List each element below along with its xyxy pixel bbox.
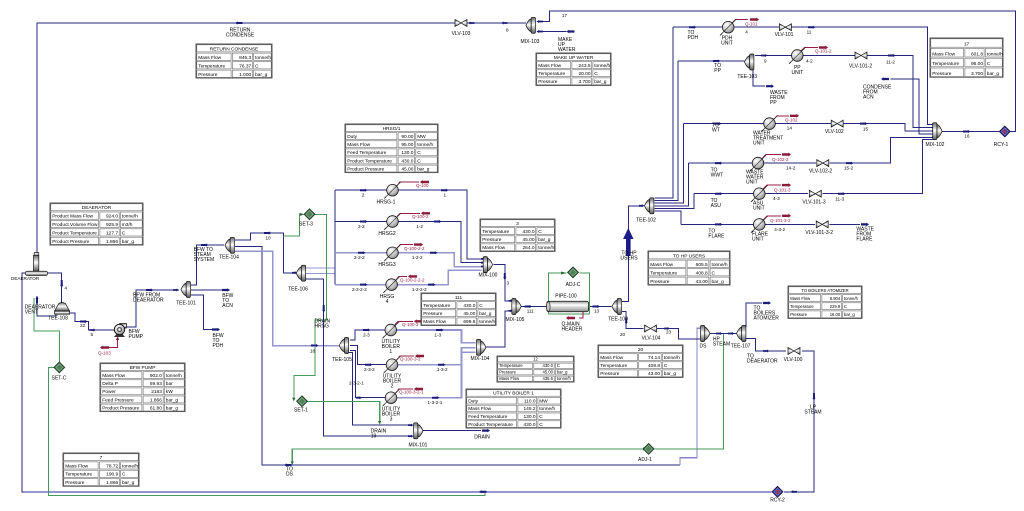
svg-text:Product Pressure: Product Pressure	[347, 166, 384, 172]
svg-text:VLV-101: VLV-101	[775, 32, 794, 38]
svg-text:Q-102-2: Q-102-2	[772, 157, 789, 162]
svg-text:Q-100-3: Q-100-3	[402, 322, 419, 327]
svg-text:C: C	[122, 472, 126, 478]
svg-text:bar_g: bar_g	[557, 369, 568, 374]
set SET-3	[304, 209, 315, 220]
svg-text:20.00: 20.00	[578, 71, 590, 77]
svg-text:1.000: 1.000	[239, 72, 251, 78]
svg-text:TEE-105: TEE-105	[332, 357, 352, 363]
valve VLV-100	[788, 348, 800, 355]
svg-text:Pressure: Pressure	[198, 72, 218, 78]
svg-text:Q-100-2-2: Q-100-2-2	[404, 246, 425, 251]
svg-text:Q-101-3-2: Q-101-3-2	[770, 218, 791, 223]
big arrow TO HP USERS	[623, 228, 633, 256]
svg-text:1-3-2: 1-3-2	[437, 367, 448, 372]
wire TEE-103 to PP unit row	[755, 55, 792, 57]
tee TEE-101	[181, 282, 190, 298]
svg-text:HRSG3: HRSG3	[378, 262, 395, 268]
svg-text:RETURN CONDENSE: RETURN CONDENSE	[210, 46, 259, 52]
heater HRSG2	[384, 213, 401, 230]
svg-text:1.866: 1.866	[106, 239, 118, 245]
heater FLARE UNIT	[751, 216, 768, 233]
valve VLV-101-3	[809, 190, 821, 197]
svg-text:924.0: 924.0	[106, 214, 118, 220]
svg-text:tonne/h: tonne/h	[417, 142, 433, 148]
svg-text:Feed Pressure: Feed Pressure	[102, 397, 134, 403]
wire TEE-100 riser to TEE-102 with TO HP USERS arrow	[622, 206, 640, 302]
svg-text:C: C	[594, 71, 598, 77]
svg-text:229.9: 229.9	[830, 304, 841, 309]
wire LP steam from VLV-100 to RCY-2	[784, 351, 814, 492]
wire stream 22 / 5 to pump	[68, 313, 114, 330]
green ADJ-C loop around PIPE-100	[549, 273, 567, 307]
svg-text:HRSG2: HRSG2	[378, 231, 395, 237]
svg-text:3: 3	[507, 281, 510, 286]
wire DS outlet HP STEAM to TEE-107	[710, 333, 737, 335]
wire deaerator outlet stream 4	[48, 273, 62, 303]
svg-text:430.0: 430.0	[463, 303, 475, 309]
svg-text:tonne/h: tonne/h	[479, 319, 495, 325]
svg-text:HRSG/1: HRSG/1	[383, 126, 401, 132]
svg-text:Mass Flow: Mass Flow	[347, 142, 370, 148]
svg-text:STEAM: STEAM	[713, 342, 730, 348]
svg-text:UNIT: UNIT	[752, 237, 764, 243]
svg-text:MIX-102: MIX-102	[926, 142, 945, 148]
svg-text:2-2: 2-2	[358, 224, 365, 229]
valve VLV-103	[455, 20, 467, 27]
svg-text:HEADER: HEADER	[562, 327, 583, 333]
wire utility boiler returns to MIX-104	[397, 330, 476, 343]
svg-text:PUMP: PUMP	[129, 334, 144, 340]
svg-text:96.00: 96.00	[971, 61, 983, 67]
svg-text:TEE-107: TEE-107	[731, 344, 751, 350]
svg-text:15: 15	[863, 127, 869, 132]
svg-text:Feed Temperature: Feed Temperature	[468, 414, 507, 420]
svg-text:VLV-101-3: VLV-101-3	[802, 200, 825, 206]
svg-text:4: 4	[745, 30, 748, 35]
svg-text:Mass Flow: Mass Flow	[499, 376, 520, 381]
svg-text:TEE-102: TEE-102	[636, 218, 656, 224]
svg-text:MIX-100: MIX-100	[479, 273, 498, 279]
svg-text:Mass Flow: Mass Flow	[600, 355, 623, 361]
svg-text:MIX-105: MIX-105	[506, 317, 525, 323]
table 7	[63, 453, 139, 486]
svg-text:bar_g: bar_g	[166, 405, 179, 411]
svg-text:UNIT: UNIT	[721, 41, 733, 47]
svg-text:PIPE-100: PIPE-100	[555, 294, 577, 300]
svg-text:127.7: 127.7	[106, 230, 118, 236]
wire branch row 1 TO PDH	[673, 27, 933, 124]
svg-text:m3/h: m3/h	[122, 222, 133, 228]
svg-text:Mass Flow: Mass Flow	[650, 262, 673, 268]
svg-text:16: 16	[964, 134, 970, 139]
svg-text:ASU: ASU	[711, 203, 722, 209]
svg-text:WWT: WWT	[711, 173, 724, 179]
svg-text:SET-C: SET-C	[52, 376, 67, 382]
svg-text:tonne/h: tonne/h	[122, 463, 138, 469]
recycle RCY-1	[999, 126, 1010, 137]
heater PDH UNIT	[720, 19, 737, 36]
svg-text:4-3: 4-3	[773, 196, 780, 201]
svg-text:243.5: 243.5	[578, 63, 590, 69]
svg-text:TEE-103: TEE-103	[737, 74, 757, 80]
svg-text:VLV-104: VLV-104	[642, 336, 661, 342]
svg-text:FLARE: FLARE	[856, 237, 873, 243]
wire TEE-105 drain 19 to MIX-101	[346, 353, 409, 426]
svg-text:20: 20	[620, 332, 626, 337]
svg-text:MAKE UP WATER: MAKE UP WATER	[554, 55, 594, 61]
wire branch row 5 TO ASU	[694, 193, 754, 195]
table 111	[421, 293, 496, 325]
svg-text:C: C	[417, 158, 421, 164]
svg-text:190.9: 190.9	[106, 472, 118, 478]
svg-text:Duty: Duty	[468, 398, 478, 404]
svg-text:Q-101-2: Q-101-2	[815, 49, 832, 54]
svg-text:TEE-104: TEE-104	[219, 255, 239, 261]
tee TEE-100	[612, 299, 621, 315]
svg-text:2: 2	[391, 384, 394, 390]
svg-text:PP: PP	[770, 100, 777, 106]
wire PIPE-100 outlet 13 to TEE-100	[589, 306, 612, 308]
green SET-C chain	[34, 298, 60, 362]
svg-text:Product Pressure: Product Pressure	[52, 239, 89, 245]
svg-text:Mass Flow: Mass Flow	[102, 373, 125, 379]
svg-text:MIX-103: MIX-103	[521, 39, 540, 45]
svg-text:tonne/h: tonne/h	[844, 296, 859, 301]
svg-text:2-2-2: 2-2-2	[354, 255, 365, 260]
svg-text:90.00: 90.00	[401, 134, 413, 140]
wire TEE-102 manifold buses	[655, 27, 673, 198]
svg-text:bar_g: bar_g	[417, 166, 430, 172]
tee TEE-102	[645, 198, 654, 214]
svg-text:430.0: 430.0	[543, 363, 554, 368]
svg-text:MW: MW	[417, 134, 426, 140]
svg-text:902.0: 902.0	[150, 373, 162, 379]
svg-text:Mass Flow: Mass Flow	[790, 296, 811, 301]
svg-text:bar_g: bar_g	[122, 480, 135, 486]
wire TEE-104 to DS desuperheater water line	[235, 247, 680, 466]
wire HRSG row 3	[335, 253, 482, 267]
svg-text:C: C	[557, 363, 560, 368]
heater HRSG-1	[384, 182, 401, 199]
svg-text:3: 3	[516, 221, 519, 227]
heater WATER TREATMENT UNIT	[761, 115, 778, 132]
svg-text:20: 20	[638, 347, 644, 353]
svg-text:ADJ-1: ADJ-1	[638, 457, 652, 463]
svg-text:2: 2	[362, 193, 365, 198]
wire make up water inlet	[537, 31, 567, 33]
svg-text:11: 11	[807, 30, 812, 35]
svg-text:MIX-101: MIX-101	[409, 443, 428, 449]
svg-text:Temperature: Temperature	[423, 303, 450, 309]
svg-text:Temperature: Temperature	[650, 270, 677, 276]
svg-text:4: 4	[65, 286, 68, 291]
valve VLV-104	[645, 325, 657, 332]
svg-text:Pressure: Pressure	[538, 79, 558, 85]
valve VLV-101-3-2	[816, 221, 828, 228]
wire RCY-2 recycle to deaerator drum	[22, 491, 772, 493]
svg-text:ATOMIZER: ATOMIZER	[754, 316, 780, 322]
svg-text:2183: 2183	[151, 389, 162, 395]
svg-text:bar_g: bar_g	[538, 237, 551, 243]
svg-text:TO HP USERS: TO HP USERS	[673, 253, 705, 259]
svg-text:VLV-101-2: VLV-101-2	[849, 64, 872, 70]
svg-text:Pressure: Pressure	[650, 279, 670, 285]
svg-text:435.6: 435.6	[543, 376, 554, 381]
wire MIX-102 outlet 16 to RCY-1	[942, 131, 999, 133]
svg-text:bar_g: bar_g	[712, 279, 725, 285]
svg-text:9: 9	[764, 59, 767, 64]
svg-text:Q-101: Q-101	[745, 22, 758, 27]
wire TEE-106 outlets to HRSG bus	[306, 267, 335, 269]
wire TEE-105 feed rows utility boilers	[350, 330, 385, 340]
svg-text:C: C	[712, 270, 716, 276]
heater HRSG 4	[383, 276, 400, 293]
svg-text:10: 10	[266, 236, 272, 241]
svg-text:4-3-2: 4-3-2	[774, 227, 785, 232]
mixer MIX-105	[512, 299, 521, 315]
tee TEE-108 vent dome	[55, 303, 70, 315]
svg-text:Product Pressure: Product Pressure	[102, 405, 139, 411]
wire MIX-105 outlet 111 to PIPE-100	[521, 306, 547, 308]
energy Q-100-2	[396, 213, 420, 218]
wire stream 10 TEE-104 to TEE-106	[235, 233, 292, 273]
svg-text:3.700: 3.700	[578, 79, 590, 85]
mixer MIX-102	[933, 123, 942, 140]
energy Q-101-3-2	[763, 216, 781, 220]
svg-text:VLV-100: VLV-100	[784, 357, 803, 363]
heater PP UNIT	[789, 47, 806, 64]
svg-text:45.00: 45.00	[522, 237, 534, 243]
tee TEE-103	[745, 54, 754, 70]
svg-text:15-2: 15-2	[844, 166, 854, 171]
svg-text:STEAM: STEAM	[804, 410, 821, 416]
svg-text:C: C	[539, 422, 543, 428]
table RETURN CONDENSE	[196, 44, 272, 78]
svg-text:2-3-2: 2-3-2	[364, 367, 375, 372]
tee TEE-104	[225, 237, 234, 253]
adjust ADJ-C	[568, 267, 579, 278]
svg-text:Product Mass Flow: Product Mass Flow	[52, 214, 93, 220]
svg-text:bar_g: bar_g	[664, 371, 677, 377]
wire HRSG bus vertical	[334, 190, 336, 284]
wire MIX-101 drain outlet	[422, 430, 481, 432]
svg-text:Pressure: Pressure	[932, 71, 952, 77]
svg-text:95.00: 95.00	[401, 142, 413, 148]
svg-text:kW: kW	[166, 389, 173, 395]
svg-text:tonne/h: tonne/h	[538, 245, 554, 251]
valve VLV-102-2	[817, 160, 829, 167]
svg-text:VLV-101-3-2: VLV-101-3-2	[805, 230, 833, 236]
table 20	[598, 345, 683, 377]
heater HRSG3	[384, 245, 401, 262]
energy Q-100-3-2	[396, 356, 414, 361]
svg-text:R: R	[1003, 130, 1007, 136]
svg-text:PDH: PDH	[688, 35, 699, 41]
svg-text:C: C	[538, 229, 542, 235]
svg-text:TEE-108: TEE-108	[48, 316, 68, 322]
svg-text:tonne/h: tonne/h	[122, 214, 138, 220]
svg-text:SYSTEM: SYSTEM	[194, 257, 215, 263]
svg-text:SET-1: SET-1	[294, 408, 308, 414]
svg-text:UTILITY BOILER 1: UTILITY BOILER 1	[493, 391, 534, 397]
wire TEE-107 to boilers atomizer	[746, 303, 762, 327]
svg-text:RCY-1: RCY-1	[994, 142, 1009, 148]
svg-text:MIX-104: MIX-104	[471, 356, 490, 362]
wire HRSG row 2	[335, 222, 482, 263]
tee TEE-107	[737, 326, 746, 342]
svg-text:Q-100-2: Q-100-2	[412, 214, 429, 219]
deaerator vessel	[34, 253, 39, 256]
svg-text:Pressure: Pressure	[482, 237, 502, 243]
svg-text:1.866: 1.866	[150, 397, 162, 403]
table HRSG/1	[345, 124, 438, 173]
energy Q-100-3	[394, 321, 413, 326]
green SET-3 chain	[283, 215, 299, 237]
svg-text:Q-100-3-2: Q-100-3-2	[400, 357, 421, 362]
svg-text:4-2: 4-2	[806, 59, 813, 64]
svg-text:78.72: 78.72	[106, 463, 118, 469]
svg-text:tonne/h: tonne/h	[539, 406, 555, 412]
table UTILITY BOILER 1	[466, 389, 561, 428]
svg-text:tonne/h: tonne/h	[987, 51, 1003, 57]
svg-text:Temperature: Temperature	[499, 363, 523, 368]
svg-text:DEAERATOR: DEAERATOR	[747, 359, 778, 365]
wire TEE-106 drain to MIX-101	[306, 279, 409, 436]
svg-text:Temperature: Temperature	[600, 363, 627, 369]
svg-text:UNIT: UNIT	[746, 180, 758, 186]
svg-text:430.0: 430.0	[523, 422, 535, 428]
svg-text:Temperature: Temperature	[538, 71, 565, 77]
svg-text:2-3: 2-3	[363, 333, 370, 338]
svg-text:C: C	[479, 303, 483, 309]
svg-text:605.5: 605.5	[696, 262, 708, 268]
svg-text:DS: DS	[700, 344, 708, 350]
svg-text:TO BOILERS ATOMIZER: TO BOILERS ATOMIZER	[801, 288, 848, 293]
svg-text:bar_g: bar_g	[122, 239, 135, 245]
svg-text:VLV-102-2: VLV-102-2	[809, 169, 832, 175]
svg-text:BFW PUMP: BFW PUMP	[130, 365, 156, 371]
svg-text:Mass Flow: Mass Flow	[932, 51, 955, 57]
svg-text:Temperature: Temperature	[198, 63, 225, 69]
wire deaerator vent	[37, 296, 56, 316]
wire BFW to ACN	[191, 289, 222, 291]
svg-text:TEE-101: TEE-101	[176, 301, 196, 307]
svg-text:C: C	[664, 363, 668, 369]
svg-text:14-2: 14-2	[786, 166, 796, 171]
svg-text:16.00: 16.00	[830, 312, 841, 317]
svg-text:WATER: WATER	[558, 47, 576, 53]
svg-text:TEE-100: TEE-100	[608, 317, 628, 323]
svg-text:264.0: 264.0	[522, 245, 534, 251]
mixer MIX-103	[526, 17, 535, 33]
valve VLV-102	[831, 120, 843, 127]
svg-text:bar_g: bar_g	[987, 71, 1000, 77]
svg-text:tonne/h: tonne/h	[255, 55, 271, 61]
svg-text:PDH: PDH	[213, 343, 224, 349]
svg-text:145.2: 145.2	[523, 406, 535, 412]
svg-text:FLARE: FLARE	[708, 234, 725, 240]
table BFW PUMP	[100, 363, 185, 412]
svg-text:2-2-2-2: 2-2-2-2	[352, 287, 367, 292]
svg-text:17: 17	[562, 13, 568, 18]
svg-text:12: 12	[533, 356, 538, 361]
svg-text:59.93: 59.93	[150, 381, 162, 387]
green SET-1 chain	[294, 347, 315, 400]
svg-text:CONDENSE: CONDENSE	[226, 33, 255, 39]
heater UTILITY BOILER 3	[383, 389, 400, 406]
svg-text:Q-103: Q-103	[98, 351, 111, 356]
svg-text:VENT: VENT	[25, 310, 38, 316]
svg-text:1: 1	[389, 349, 392, 355]
svg-text:bar_g: bar_g	[594, 79, 607, 85]
svg-text:R: R	[776, 490, 780, 496]
svg-text:Temperature: Temperature	[790, 304, 814, 309]
heater UTILITY BOILER 2	[384, 356, 401, 373]
mixer MIX-100	[483, 257, 492, 273]
mixer MIX-101	[414, 423, 423, 439]
svg-text:8.904: 8.904	[830, 296, 841, 301]
svg-text:130.0: 130.0	[523, 414, 535, 420]
wire HRSG row 1	[335, 190, 482, 259]
svg-text:43.00: 43.00	[696, 279, 708, 285]
svg-text:VLV-102: VLV-102	[825, 129, 844, 135]
svg-text:C: C	[987, 61, 991, 67]
adjust ADJ-1	[643, 444, 654, 455]
svg-text:76.37: 76.37	[239, 63, 251, 69]
svg-text:tonne/h: tonne/h	[664, 355, 680, 361]
svg-text:C: C	[417, 150, 421, 156]
svg-text:ADJ-C: ADJ-C	[566, 282, 581, 288]
svg-text:Pressure: Pressure	[423, 311, 443, 317]
energy Q-101-3	[763, 185, 781, 189]
tee TEE-105	[339, 338, 348, 354]
svg-text:tonne/h: tonne/h	[557, 376, 572, 381]
svg-text:VLV-103: VLV-103	[452, 31, 471, 37]
heater UTILITY BOILER 1	[383, 322, 400, 339]
svg-text:Mass Flow: Mass Flow	[65, 463, 88, 469]
svg-text:1-2: 1-2	[416, 224, 423, 229]
svg-text:7: 7	[100, 455, 103, 461]
svg-text:TEE-106: TEE-106	[288, 287, 308, 293]
svg-text:601.8: 601.8	[971, 51, 983, 57]
svg-text:tonne/h: tonne/h	[594, 63, 610, 69]
svg-text:Temperature: Temperature	[65, 472, 92, 478]
table MAKE UP WATER	[536, 53, 611, 85]
svg-text:1.866: 1.866	[106, 480, 118, 486]
svg-text:C: C	[255, 63, 259, 69]
wire HRSG row 4	[335, 270, 482, 284]
mixer DS	[701, 326, 710, 342]
valve VLV-101	[779, 24, 791, 31]
svg-text:Mass Flow: Mass Flow	[538, 63, 561, 69]
svg-text:2-3-2-1: 2-3-2-1	[349, 381, 364, 386]
svg-text:925.9: 925.9	[106, 222, 118, 228]
svg-text:11-2: 11-2	[886, 60, 895, 65]
wire MIX-100 outlet stream 3 to MIX-105	[494, 265, 509, 301]
svg-text:tonne/h: tonne/h	[712, 262, 728, 268]
svg-text:430.0: 430.0	[401, 158, 413, 164]
svg-text:MW: MW	[539, 398, 548, 404]
svg-text:PP: PP	[714, 68, 721, 74]
recycle RCY-2	[772, 486, 783, 497]
wire stream 18 TEE-104 to TEE-105	[235, 251, 340, 346]
wire pump discharge to TEE-101	[124, 290, 179, 327]
svg-text:RCY-2: RCY-2	[770, 498, 785, 504]
pipe PIPE-100	[547, 301, 589, 312]
svg-text:DEAERATOR: DEAERATOR	[82, 205, 112, 211]
svg-text:1-2-2: 1-2-2	[412, 255, 423, 260]
